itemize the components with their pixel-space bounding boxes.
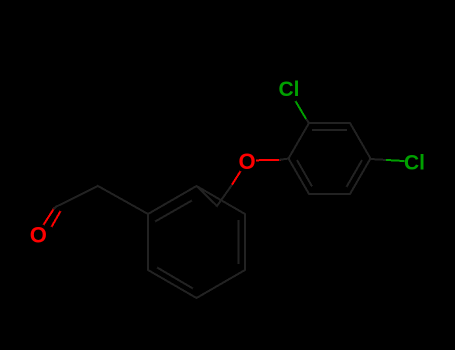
bond C1-V1 [57, 186, 99, 207]
svg-text:Cl: Cl [404, 152, 425, 175]
O-ring ether bond red half [257, 159, 280, 162]
left ring inner aromatic line B-LL [158, 268, 192, 288]
right benzene ring [289, 123, 371, 194]
Cl2 bond green half [296, 102, 306, 118]
Cl2 bond gray half [306, 118, 310, 123]
svg-text:Cl: Cl [279, 78, 300, 101]
Cl4 bond gray half [371, 159, 388, 160]
right ring inner line C6-C1 [298, 161, 312, 186]
aldehyde C=O main bond [44, 209, 54, 225]
aldehyde C=O inner double line [52, 212, 60, 226]
svg-text:O: O [238, 149, 255, 174]
O-ring ether bond gray half [280, 159, 289, 160]
O-CH2 bond gray half [217, 186, 232, 207]
left benzene ring [148, 186, 245, 298]
Cl4 bond green half [387, 160, 404, 161]
right ring inner line C2-C3 top [313, 129, 346, 131]
bond V1-ring UL [98, 186, 148, 214]
right ring inner line C4-C5 [347, 161, 362, 186]
left ring inner aromatic line UR-LR [238, 221, 240, 263]
left ring inner aromatic line UL-T [156, 201, 191, 221]
CH2-ring bond [197, 186, 218, 206]
svg-text:O: O [30, 223, 47, 248]
O-CH2 bond red half [232, 172, 241, 186]
